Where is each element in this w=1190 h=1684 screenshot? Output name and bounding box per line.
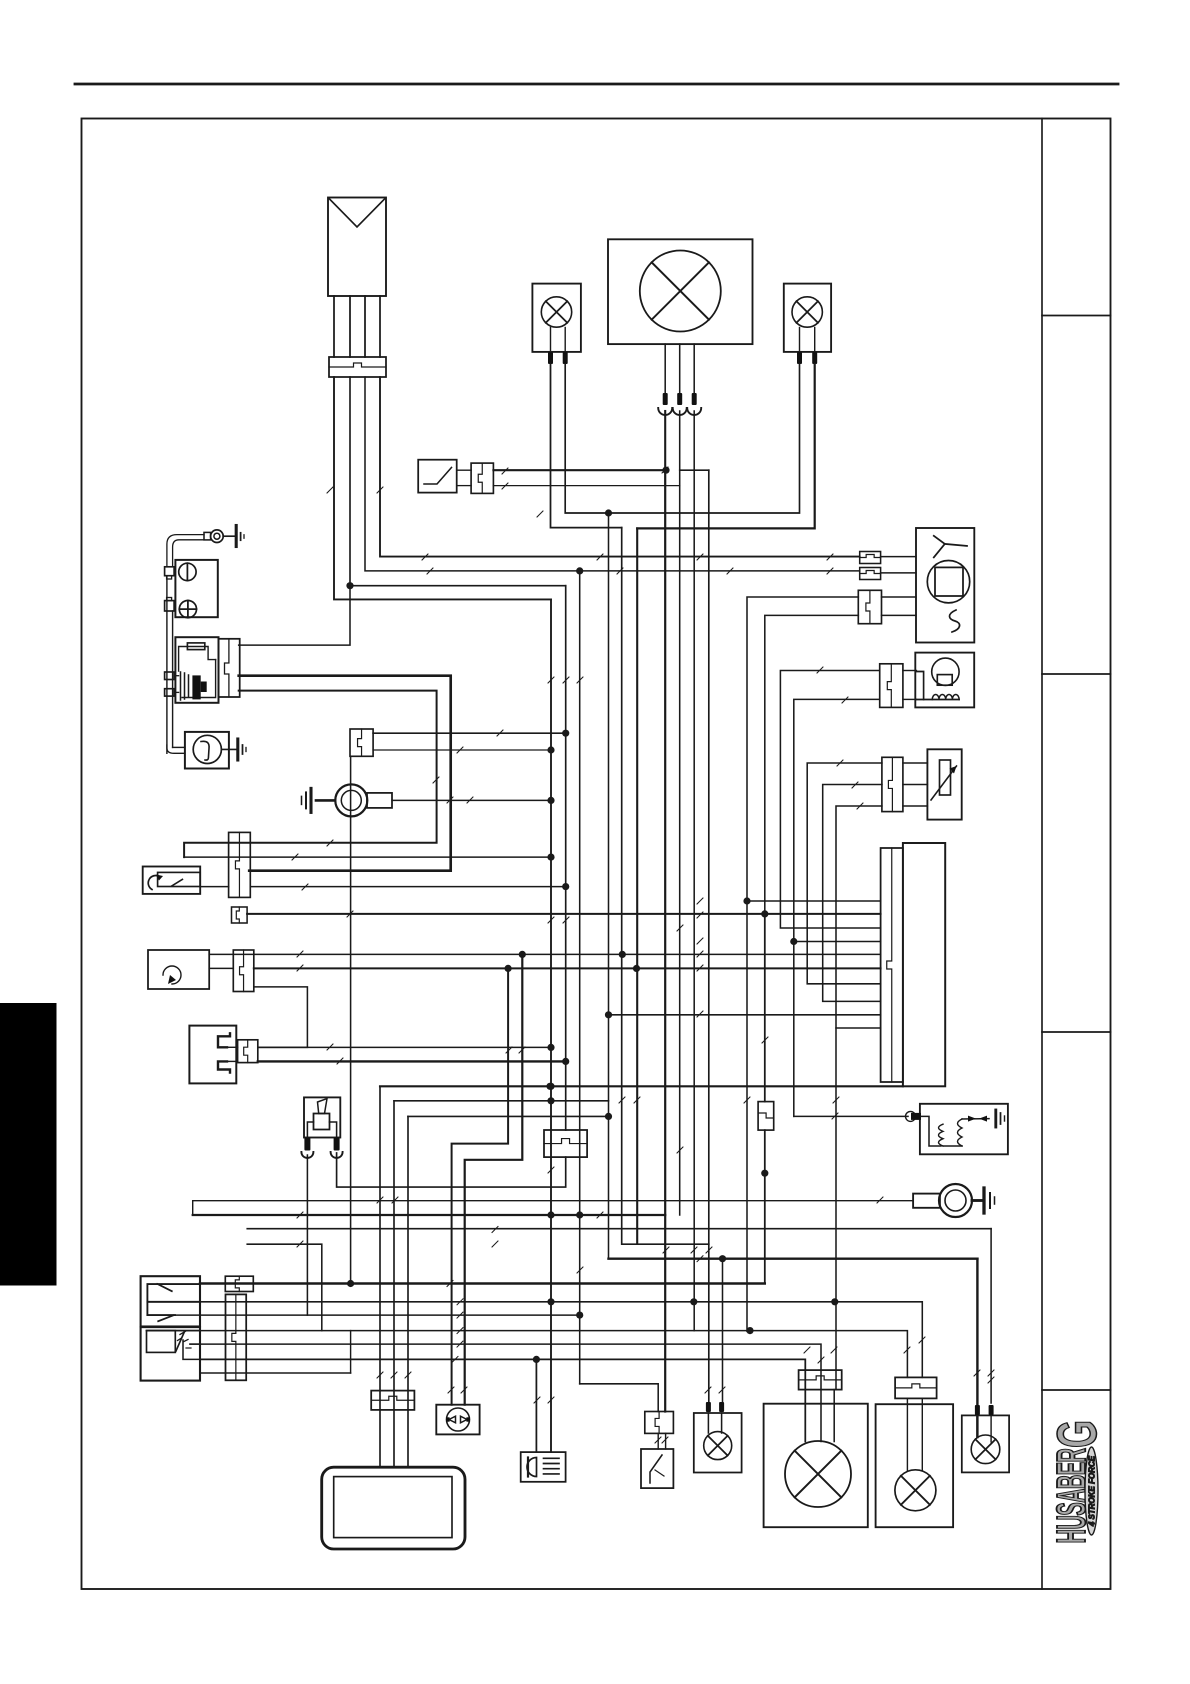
svg-text:G: G [1045, 1420, 1108, 1448]
svg-text:4 STROKE FORCE: 4 STROKE FORCE [1088, 1455, 1097, 1527]
